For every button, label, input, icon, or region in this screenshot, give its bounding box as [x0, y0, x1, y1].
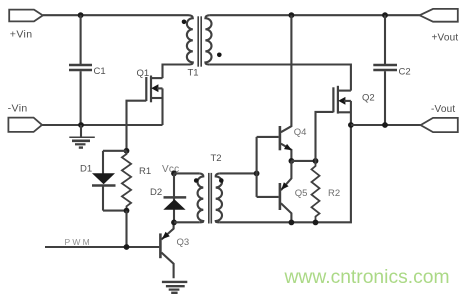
- ground (input side): [69, 125, 95, 148]
- svg-text:T2: T2: [211, 153, 222, 164]
- node D2 / T2 primary bottom / Q3 emitter: [171, 220, 177, 226]
- svg-text:-Vin: -Vin: [8, 103, 28, 115]
- svg-text:-Vout: -Vout: [431, 104, 455, 115]
- wire Vcc to T2 primary top: [174, 172, 199, 174]
- resistor R2: [312, 161, 341, 223]
- svg-text:C1: C1: [94, 66, 106, 77]
- svg-text:+Vout: +Vout: [432, 33, 459, 44]
- mosfet Q2: [333, 86, 374, 114]
- terminal +Vout: [420, 9, 458, 22]
- node R1 bottom / D1: [124, 208, 130, 214]
- transistor Q5: [280, 161, 308, 223]
- wire T1 primary bottom to Q1 drain: [163, 65, 189, 79]
- svg-text:PWM: PWM: [65, 237, 92, 247]
- wire Q4 base: [257, 136, 279, 138]
- svg-text:D1: D1: [80, 164, 92, 175]
- terminal -Vin: [8, 118, 42, 132]
- svg-text:R2: R2: [328, 188, 340, 199]
- wire T2 primary bottom: [174, 221, 199, 223]
- svg-text:C2: C2: [399, 67, 411, 78]
- node Q5 collector bottom: [289, 220, 295, 226]
- node R2 bottom: [313, 220, 319, 226]
- capacitor C1: [69, 15, 106, 125]
- transformer T2: [194, 153, 224, 224]
- wire Q1 source to -Vin rail: [161, 88, 163, 125]
- wire Q2 gate: [316, 112, 334, 161]
- wire T2 secondary bottom rail: [220, 125, 351, 222]
- terminal -Vout: [421, 118, 458, 132]
- wire Q2 source to -Vout rail: [350, 101, 352, 125]
- wire top rail left: [43, 14, 189, 16]
- node PWM / R1: [124, 244, 130, 250]
- svg-text:Q4: Q4: [294, 127, 307, 138]
- terminal +Vin: [9, 10, 43, 22]
- svg-text:T1: T1: [188, 68, 199, 79]
- svg-text:R1: R1: [139, 166, 151, 177]
- wire -Vin rail: [42, 124, 163, 126]
- node base drive: [254, 171, 260, 177]
- wire Q1 gate: [127, 101, 147, 151]
- wire T1 secondary bottom to Q2 drain: [210, 65, 351, 91]
- svg-text:+Vin: +Vin: [10, 29, 33, 41]
- node Q2 source / -Vout: [348, 122, 354, 128]
- wire top rail right: [210, 14, 420, 16]
- wire PWM input: [45, 246, 159, 248]
- node -Vin / C1 / ground: [78, 122, 84, 128]
- node R2 top / Q2 gate: [313, 158, 319, 164]
- node Q4 collector top: [289, 12, 295, 18]
- svg-text:Q3: Q3: [177, 237, 190, 248]
- wire Q5 base: [257, 196, 279, 198]
- svg-text:Q2: Q2: [362, 93, 375, 104]
- resistor R1: [122, 151, 151, 211]
- transformer T1: [182, 15, 222, 78]
- capacitor C2: [373, 15, 410, 125]
- node C1 top: [78, 12, 84, 18]
- wire driver mid: [291, 160, 315, 162]
- node C2 bottom: [382, 122, 388, 128]
- node Vcc: [171, 171, 177, 177]
- svg-text:www.cntronics.com: www.cntronics.com: [284, 267, 450, 288]
- transistor Q3: [160, 223, 189, 278]
- wire R1 bottom to PWM rail: [125, 211, 127, 247]
- svg-text:Q5: Q5: [295, 188, 308, 199]
- mosfet Q1: [137, 68, 163, 102]
- node C2 top: [382, 12, 388, 18]
- ground (under Q3): [162, 282, 187, 293]
- svg-text:D2: D2: [150, 187, 162, 198]
- wire -Vout rail: [351, 124, 421, 126]
- node Q1 gate / D1 / R1: [124, 148, 130, 154]
- diode D1: [80, 151, 127, 211]
- wire common base vertical: [256, 137, 258, 197]
- diode D2: [150, 173, 186, 222]
- svg-text:Q1: Q1: [137, 68, 150, 79]
- transistor Q4: [280, 15, 307, 161]
- wire T2 secondary top to bases: [220, 172, 257, 174]
- node driver mid left: [289, 158, 295, 164]
